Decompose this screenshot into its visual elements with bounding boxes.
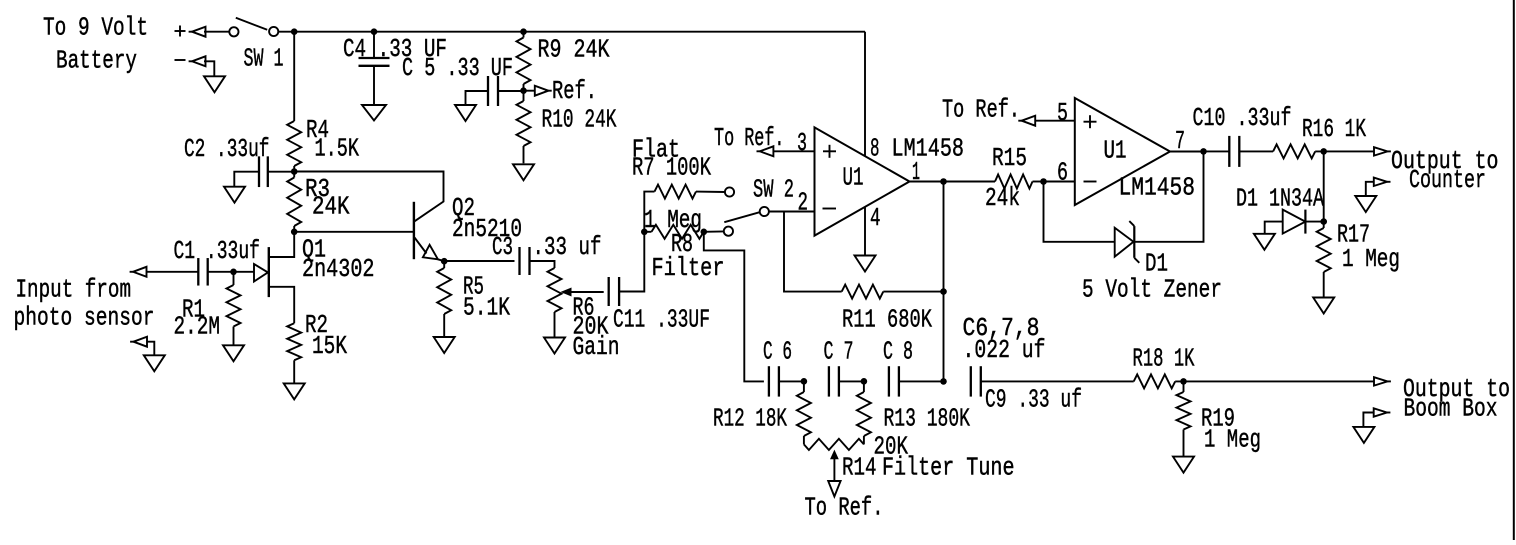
label D1 1N34A [1236, 184, 1324, 214]
svg-text:Boom Box: Boom Box [1404, 394, 1498, 424]
svg-text:SW 1: SW 1 [244, 44, 284, 74]
resistor R19 [1177, 381, 1191, 456]
svg-text:1.5K: 1.5K [315, 134, 360, 164]
label C6 [763, 337, 792, 367]
wire [1175, 380, 1374, 382]
label pin7 [1175, 126, 1185, 156]
label C5 [402, 53, 513, 83]
label 5 Volt Zener [1082, 275, 1222, 305]
U1b - input [1084, 181, 1097, 183]
resistor R13 [857, 381, 871, 444]
port arrow boom gnd [1374, 408, 1391, 416]
svg-text:R18 1K: R18 1K [1133, 344, 1195, 374]
port arrow to ref 2 [1018, 116, 1035, 126]
svg-text:To 9 Volt: To 9 Volt [43, 13, 148, 43]
svg-text:R15: R15 [992, 143, 1027, 173]
port arrow input shield [130, 337, 147, 347]
capacitor C3 [520, 247, 530, 275]
label R2 [305, 310, 347, 361]
label pin1 [912, 157, 920, 187]
ground [434, 337, 455, 353]
svg-text:24K: 24K [312, 192, 350, 222]
wire [704, 230, 724, 232]
ground [1173, 457, 1194, 473]
node junction [641, 229, 648, 236]
node junction [520, 28, 527, 35]
svg-text:C9 .33 uf: C9 .33 uf [985, 385, 1082, 415]
node junction [291, 168, 298, 175]
resistor R8 [644, 225, 704, 239]
svg-text:R16 1K: R16 1K [1302, 114, 1366, 144]
port arrow Ref [524, 86, 552, 96]
wire [943, 182, 945, 382]
port arrow input [130, 267, 147, 277]
wire [899, 380, 944, 382]
battery - terminal [175, 59, 186, 61]
wire [293, 32, 295, 121]
svg-text:To Ref.: To Ref. [805, 493, 884, 523]
svg-text:C 6: C 6 [763, 337, 792, 367]
node junction [1180, 378, 1187, 385]
wire [883, 291, 943, 293]
resistor R17 [1317, 222, 1331, 298]
label C10 [1193, 103, 1292, 133]
wire [147, 342, 154, 356]
node junction [291, 229, 298, 236]
U1a - input [823, 208, 837, 210]
label R6 [573, 293, 620, 363]
switch SW2 throw B [724, 227, 733, 236]
svg-text:R11 680K: R11 680K [842, 305, 932, 335]
label R9 [538, 35, 610, 65]
label R16 [1302, 114, 1366, 144]
label R17 [1337, 220, 1400, 275]
wire [1305, 221, 1323, 223]
svg-text:C10 .33uf: C10 .33uf [1193, 103, 1292, 133]
label R1 [174, 295, 221, 342]
ground [144, 355, 165, 371]
wire [1363, 413, 1373, 427]
capacitor C1 [198, 258, 207, 286]
label pin5 [1057, 98, 1068, 128]
port arrow to ref [757, 146, 774, 156]
label C9 [985, 385, 1082, 415]
battery + terminal [175, 26, 186, 37]
wire: Q1 drain [269, 232, 294, 257]
wire [839, 380, 864, 382]
svg-text:8: 8 [870, 134, 880, 164]
label C7 [824, 337, 854, 367]
wire [204, 61, 214, 76]
label C4 [343, 34, 447, 64]
ground [223, 345, 244, 361]
capacitor C7 [829, 366, 839, 396]
wire [466, 91, 489, 105]
svg-text:1 Meg: 1 Meg [1342, 244, 1400, 274]
wire: pin6 [1044, 181, 1075, 183]
wire [1239, 150, 1273, 152]
port arrow counter gnd [1374, 178, 1391, 186]
label Filter [652, 253, 725, 283]
label To Ref. 2 [942, 95, 1020, 125]
switch SW1 throw [269, 27, 278, 36]
svg-text:C11 .33UF: C11 .33UF [613, 305, 710, 335]
svg-text:LM1458: LM1458 [1119, 173, 1196, 203]
label pin2 [798, 188, 809, 218]
ground [544, 338, 565, 354]
switch SW2 pole [760, 207, 769, 216]
diode D1 zener [1115, 221, 1140, 263]
wire [444, 260, 514, 262]
ground [855, 256, 876, 272]
label Flat [632, 135, 680, 165]
wire: U1a output [910, 181, 944, 183]
wire [1134, 151, 1203, 241]
svg-text:6: 6 [1057, 158, 1068, 188]
label R14 [842, 432, 1015, 483]
label Output to Counter [1391, 146, 1499, 195]
ground [1355, 196, 1376, 212]
resistor R9 [517, 32, 531, 91]
wire [204, 31, 229, 33]
label Ref. [552, 76, 597, 106]
ground [455, 105, 476, 121]
svg-text:1: 1 [912, 157, 920, 187]
port arrow battery - [189, 56, 206, 66]
label LM1458 [892, 134, 965, 164]
label R10 [542, 105, 617, 135]
label C2 [184, 134, 270, 164]
wire [373, 32, 375, 58]
label input [14, 275, 155, 333]
svg-text:C1 .33uf: C1 .33uf [174, 236, 261, 266]
label 1 Meg [644, 205, 702, 235]
svg-text:R9 24K: R9 24K [538, 35, 610, 65]
svg-text:Ref.: Ref. [552, 76, 597, 106]
wire [704, 232, 764, 382]
capacitor C9 [971, 366, 981, 396]
transistor Q1 gate arrow [254, 264, 268, 282]
label pin6 [1057, 158, 1068, 188]
label U1b [1104, 136, 1127, 166]
node: +9V battery text [43, 13, 148, 76]
label C11 [613, 305, 710, 335]
transistor Q2 base bar [413, 202, 415, 259]
capacitor C10 [1229, 136, 1239, 167]
wire: pin2 [769, 211, 815, 213]
wire [498, 90, 524, 92]
resistor R10 [517, 91, 531, 164]
ground [284, 383, 305, 399]
svg-text:Input from: Input from [16, 275, 132, 305]
svg-text:Filter: Filter [652, 253, 725, 283]
label Q2 [452, 193, 522, 244]
resistor R4 [287, 121, 301, 172]
ground [1313, 298, 1334, 314]
label SW1 [244, 44, 284, 74]
label Q1 [302, 235, 375, 285]
svg-text:Counter: Counter [1409, 165, 1486, 195]
wire: pin8 [864, 32, 866, 157]
svg-text:photo sensor: photo sensor [14, 303, 155, 333]
svg-text:R14: R14 [842, 453, 877, 483]
switch SW1 pole [229, 27, 238, 36]
port arrow output boom [1374, 377, 1391, 385]
svg-text:U1: U1 [843, 163, 864, 193]
resistor R15 [944, 175, 1044, 189]
ground [513, 164, 534, 180]
resistor R2 [287, 323, 301, 383]
svg-text:3: 3 [797, 128, 807, 158]
wire [981, 380, 1134, 382]
node junction [1040, 178, 1047, 185]
node junction [861, 378, 868, 385]
wire [234, 271, 254, 273]
capacitor C6 [769, 366, 779, 396]
label C678 [963, 313, 1046, 365]
ground [1254, 234, 1275, 250]
label R8 [671, 229, 693, 259]
U1b + input [1084, 115, 1097, 128]
svg-text:.33 uf: .33 uf [533, 232, 602, 262]
wire: Q2 collector [294, 172, 443, 222]
svg-text:C2 .33uf: C2 .33uf [184, 134, 270, 164]
svg-text:2n4302: 2n4302 [302, 254, 375, 284]
U1a + input [823, 145, 836, 158]
node junction [940, 178, 947, 185]
wire [530, 261, 555, 268]
label R18 [1133, 344, 1195, 374]
pot R14 [804, 439, 864, 450]
wire [1204, 150, 1230, 152]
label C8 [883, 337, 913, 367]
label Output to Boom Box [1403, 374, 1510, 424]
resistor R3 [287, 172, 301, 232]
svg-text:R12 18K: R12 18K [713, 404, 787, 434]
label U1a [843, 163, 864, 193]
resistor R11 [842, 285, 884, 299]
svg-text:C 7: C 7 [824, 337, 854, 367]
node junction [940, 288, 947, 295]
svg-text:24k: 24k [985, 183, 1020, 213]
label R19 [1201, 404, 1261, 455]
pot R6 wiper [562, 288, 604, 296]
wire [1044, 182, 1115, 242]
wire [268, 171, 294, 173]
ground [362, 105, 386, 121]
svg-text:5.1K: 5.1K [463, 293, 510, 323]
capacitor C8 [889, 366, 899, 396]
wire [784, 212, 842, 292]
label pin8 [870, 134, 880, 164]
port arrow output counter [1374, 147, 1391, 155]
svg-text:To Ref.: To Ref. [942, 95, 1020, 125]
wire: pin3 [773, 150, 815, 152]
wire [1323, 151, 1325, 221]
svg-text:R7 100K: R7 100K [632, 153, 711, 183]
switch SW2 throw A [725, 187, 734, 196]
label pin3 [797, 128, 807, 158]
capacitor C2 [259, 156, 268, 187]
label R13 [884, 404, 971, 434]
svg-text:5: 5 [1057, 98, 1068, 128]
label pin4 [870, 203, 881, 233]
op-amp U1a [815, 127, 910, 235]
label R7 [632, 153, 711, 183]
svg-text:5 Volt Zener: 5 Volt Zener [1082, 275, 1222, 305]
resistor R18 [1134, 374, 1176, 388]
resistor R1 [227, 272, 241, 346]
svg-text:2.2M: 2.2M [174, 312, 221, 342]
border frame right [1513, 0, 1515, 540]
port arrow battery + [189, 27, 206, 37]
label C1 [174, 236, 261, 266]
label R12 [713, 404, 787, 434]
node junction [230, 269, 237, 276]
wire: +9V rail [278, 31, 865, 33]
wire [1315, 150, 1374, 152]
label D1 [1145, 249, 1168, 279]
resistor R7 [644, 185, 725, 232]
svg-text:R10 24K: R10 24K [542, 105, 617, 135]
capacitor C5 [488, 76, 498, 106]
svg-text:15K: 15K [312, 331, 347, 361]
transistor Q1 channel [268, 247, 270, 297]
wire: Q2 base [294, 231, 413, 233]
wire: pin5 [1035, 120, 1075, 122]
svg-text:.022 uf: .022 uf [963, 335, 1046, 365]
label To Ref. 3 [805, 493, 884, 523]
node junction [940, 378, 947, 385]
node junction [441, 258, 448, 265]
resistor R5 [437, 261, 451, 337]
resistor R12 [797, 381, 811, 444]
svg-text:Battery: Battery [56, 45, 137, 75]
port arrow to ref down [828, 481, 840, 497]
label R11 [842, 305, 932, 335]
node junction [1320, 218, 1327, 225]
wire [1265, 222, 1283, 234]
pot R14 wiper [831, 451, 838, 481]
switch SW2 lever [724, 212, 759, 222]
svg-text:1 Meg: 1 Meg [1204, 425, 1261, 455]
label To Ref. [714, 123, 785, 153]
svg-text:Gain: Gain [573, 332, 620, 362]
svg-text:C3: C3 [492, 232, 513, 262]
wire [147, 271, 199, 273]
wire [234, 172, 259, 187]
label C3 [492, 232, 602, 262]
capacitor C4 [359, 58, 390, 66]
capacitor C11 [609, 277, 619, 306]
wire: Q1 source [269, 287, 294, 324]
svg-text:SW 2: SW 2 [753, 175, 794, 205]
op-amp U1b [1075, 98, 1170, 205]
node junction [701, 229, 708, 236]
svg-text:C 5 .33 UF: C 5 .33 UF [402, 53, 513, 83]
label R3 [305, 174, 350, 222]
svg-text:D1 1N34A: D1 1N34A [1236, 184, 1324, 214]
diode D1 1N34A [1283, 210, 1306, 234]
wire [208, 271, 234, 273]
wire: U1b output [1170, 151, 1204, 153]
svg-text:Filter Tune: Filter Tune [882, 453, 1015, 483]
label R4 [306, 115, 359, 164]
wire [779, 380, 804, 382]
resistor R6 [548, 268, 562, 338]
wire: pin4 [864, 207, 866, 256]
node junction [801, 378, 808, 385]
node junction [1200, 148, 1207, 155]
node junction [291, 28, 298, 35]
ground [204, 76, 225, 92]
node junction [1320, 148, 1327, 155]
svg-text:U1: U1 [1104, 136, 1127, 166]
svg-text:2: 2 [798, 188, 809, 218]
svg-text:LM1458: LM1458 [892, 134, 965, 164]
svg-text:R13 180K: R13 180K [884, 404, 971, 434]
label SW2 [753, 175, 794, 205]
ground [1353, 427, 1374, 443]
wire [373, 66, 375, 105]
label R15 [985, 143, 1027, 213]
node junction [520, 87, 527, 94]
resistor R16 [1273, 144, 1315, 158]
transistor Q2 emitter [415, 238, 445, 262]
svg-text:4: 4 [870, 203, 881, 233]
wire [619, 232, 644, 292]
wire [1366, 182, 1374, 196]
node junction [371, 28, 378, 35]
label LM1458 2 [1119, 173, 1196, 203]
label R5 [463, 272, 510, 323]
svg-text:C 8: C 8 [883, 337, 913, 367]
ground [224, 187, 245, 203]
switch SW1 lever [236, 18, 267, 30]
